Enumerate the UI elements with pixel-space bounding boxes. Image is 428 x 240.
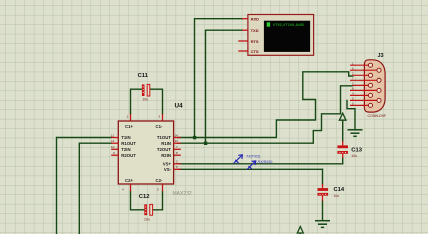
svg-text:10u: 10u bbox=[144, 218, 150, 222]
svg-text:TX(TXD): TX(TXD) bbox=[246, 155, 260, 159]
svg-text:VS-: VS- bbox=[164, 167, 172, 172]
wire VS+ (U4 pin2) to C13 bbox=[178, 163, 343, 165]
wire C12 loop bbox=[131, 191, 163, 210]
connector J3 body bbox=[364, 60, 385, 112]
U4 pin 1 stub (C1+) top bbox=[130, 114, 132, 121]
svg-text:14: 14 bbox=[175, 133, 179, 137]
J3 pin numbers bbox=[352, 61, 354, 105]
svg-text:10u: 10u bbox=[143, 97, 149, 101]
wire R1IN (U4 pin13) to J3 pin row 5 bbox=[178, 86, 353, 143]
J3 pin circles left column bbox=[368, 63, 372, 107]
U4 pin 5 stub (C2-) bottom bbox=[162, 184, 164, 191]
wire C13 column bbox=[342, 121, 344, 164]
capacitor C14 bbox=[318, 184, 345, 201]
svg-text:VT52,VT100,ANSI: VT52,VT100,ANSI bbox=[273, 23, 305, 27]
U4 right pin stubs 14,13,7,8,2,6 bbox=[174, 138, 181, 170]
svg-text:C13: C13 bbox=[351, 148, 362, 154]
ground under C14 bbox=[315, 221, 330, 228]
power terminal arrow above C13 bbox=[339, 113, 346, 120]
node junction dot TXD/R1IN bbox=[204, 142, 207, 145]
ground at J3 bbox=[348, 130, 363, 137]
svg-text:C2-: C2- bbox=[156, 178, 163, 183]
wire T1IN (U4 pin11) to bottom edge bbox=[57, 138, 112, 235]
svg-text:C1-: C1- bbox=[156, 124, 163, 129]
virtual terminal screen bbox=[264, 21, 310, 52]
svg-text:RXD: RXD bbox=[251, 17, 260, 22]
power terminal arrow bottom edge bbox=[297, 227, 303, 235]
svg-text:C11: C11 bbox=[138, 73, 149, 79]
svg-text:T2OUT: T2OUT bbox=[157, 147, 171, 152]
svg-text:VS+: VS+ bbox=[163, 162, 172, 167]
wire T1OUT (U4 pin14) to J3 pin row 3 bbox=[178, 72, 353, 138]
svg-text:CTS: CTS bbox=[251, 49, 259, 54]
svg-text:RX(RXD): RX(RXD) bbox=[258, 160, 273, 164]
U4 inside pin names bbox=[121, 124, 171, 183]
svg-text:MAX232: MAX232 bbox=[173, 191, 192, 197]
terminal pin RXD bbox=[242, 18, 248, 20]
svg-text:10u: 10u bbox=[334, 194, 340, 198]
J3 pin stubs (rows 1..9) bbox=[350, 65, 379, 105]
terminal pin labels bbox=[251, 17, 260, 54]
wire C14 column bbox=[322, 169, 324, 219]
U4 pin 3 stub (C1-) top bbox=[162, 114, 164, 121]
svg-text:12: 12 bbox=[111, 139, 115, 143]
terminal cursor block bbox=[267, 22, 270, 26]
svg-text:R2OUT: R2OUT bbox=[121, 153, 136, 158]
probe arrow RX on VS- wire bbox=[247, 161, 256, 170]
svg-text:T1OUT: T1OUT bbox=[157, 135, 171, 140]
svg-text:U4: U4 bbox=[175, 103, 184, 110]
U4 left pin stubs 11,12,10,9 bbox=[111, 138, 118, 156]
J3 pin circles right column bbox=[377, 68, 381, 102]
svg-text:J3: J3 bbox=[378, 53, 384, 59]
svg-text:CONN-D9F: CONN-D9F bbox=[368, 114, 387, 118]
capacitor C12 bbox=[139, 194, 153, 222]
svg-text:R1OUT: R1OUT bbox=[121, 141, 136, 146]
svg-text:RTS: RTS bbox=[251, 39, 259, 44]
U4 pin 4 stub (C2+) bottom bbox=[130, 184, 132, 191]
capacitor C11 bbox=[138, 73, 150, 102]
svg-text:TXD: TXD bbox=[251, 28, 259, 33]
svg-text:10: 10 bbox=[111, 145, 115, 149]
U4 pin numbers bbox=[111, 115, 178, 192]
svg-text:C2+: C2+ bbox=[125, 178, 133, 183]
virtual terminal U? body bbox=[248, 15, 314, 56]
wire C11 loop bbox=[131, 89, 163, 114]
capacitor C13 bbox=[337, 141, 362, 158]
wire RXD from terminal bbox=[195, 19, 243, 138]
svg-text:13: 13 bbox=[175, 139, 179, 143]
terminal pin RTS bbox=[238, 40, 248, 42]
svg-text:C1+: C1+ bbox=[125, 124, 133, 129]
svg-text:10u: 10u bbox=[351, 154, 357, 158]
node junction dot RXD/T1OUT bbox=[193, 136, 196, 139]
terminal pin TXD bbox=[242, 29, 248, 31]
op-amp? no : MAX232 chip U4 body bbox=[118, 121, 173, 184]
svg-text:T1IN: T1IN bbox=[121, 135, 130, 140]
svg-text:R1IN: R1IN bbox=[161, 141, 171, 146]
wire TXD from terminal bbox=[206, 30, 243, 143]
wire VS- (U4 pin6) to C14 bbox=[178, 168, 323, 170]
svg-text:C12: C12 bbox=[139, 194, 150, 200]
probe arrow TX on VS+ wire bbox=[234, 155, 243, 164]
svg-text:R2IN: R2IN bbox=[161, 153, 171, 158]
wire R1OUT (U4 pin12) to bottom edge bbox=[79, 143, 111, 234]
terminal pin CTS bbox=[238, 50, 248, 52]
wire J3 ground link bbox=[347, 100, 355, 129]
svg-text:C14: C14 bbox=[334, 187, 345, 193]
svg-text:11: 11 bbox=[111, 133, 114, 137]
svg-text:T2IN: T2IN bbox=[121, 147, 130, 152]
